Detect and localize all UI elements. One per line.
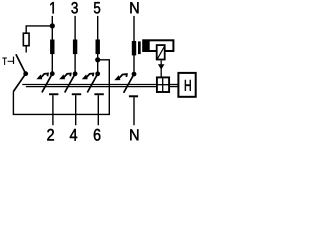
node pivot pole N xyxy=(132,72,137,77)
relay box interior xyxy=(150,41,173,50)
wire output N xyxy=(133,97,135,125)
node pivot pole 1 xyxy=(50,71,55,76)
wire line N input xyxy=(133,16,135,74)
trip action arrow xyxy=(160,60,162,76)
mechanical linkage double line xyxy=(22,84,156,86)
wire output 6 xyxy=(97,95,99,125)
CT primary bar L5 xyxy=(96,40,100,55)
trip arrow pole 1 xyxy=(36,74,48,80)
wire line 1 input xyxy=(51,16,53,74)
resistor R test xyxy=(23,33,29,46)
label T xyxy=(2,58,6,65)
CT primary bar N xyxy=(132,41,136,55)
node pivot pole 5 xyxy=(95,71,100,76)
release element xyxy=(157,45,165,59)
node junction on line 5 xyxy=(95,57,100,62)
trip arrow pole N xyxy=(114,74,127,80)
label 5 xyxy=(94,2,100,13)
node pivot pole 3 xyxy=(73,71,78,76)
label 3 xyxy=(71,2,77,13)
wire line 5 input xyxy=(97,16,99,74)
wire output 4 xyxy=(75,95,77,125)
wire test pivot to left riser xyxy=(13,74,25,92)
contact blade pole 1 xyxy=(42,74,52,93)
CT primary bar L3 xyxy=(73,40,77,55)
contact blade pole N xyxy=(124,74,134,93)
relay box xyxy=(142,39,174,52)
wire resistor lower lead xyxy=(25,46,27,53)
wire line 3 input xyxy=(74,16,76,74)
label 2 xyxy=(47,129,54,141)
contact blade pole 3 xyxy=(65,74,75,93)
label N top xyxy=(130,2,138,13)
label H xyxy=(185,80,191,91)
H box xyxy=(178,73,195,97)
mechanism box xyxy=(157,77,169,92)
test contact blade xyxy=(16,54,26,73)
node test pivot xyxy=(23,71,28,76)
label 1 xyxy=(50,2,53,13)
linkage to H box xyxy=(170,84,178,86)
label N bottom xyxy=(130,129,138,140)
wire left riser xyxy=(13,60,109,115)
node junction on line 1 xyxy=(50,23,55,28)
test button plunger xyxy=(13,57,15,64)
wire test branch top xyxy=(26,26,52,33)
fixed contact pole N xyxy=(129,95,138,97)
CT secondary bar xyxy=(138,41,141,54)
trip arrow pole 5 xyxy=(82,74,94,80)
fixed contact pole 5 xyxy=(94,93,103,95)
fixed contact pole 1 xyxy=(49,93,58,95)
trip arrow pole 3 xyxy=(59,74,71,80)
label 6 xyxy=(94,129,101,141)
contact blade pole 5 xyxy=(87,74,97,93)
wire output 2 xyxy=(52,95,54,125)
CT primary bar L1 xyxy=(50,40,54,55)
fixed contact pole 3 xyxy=(72,93,81,95)
label 4 xyxy=(70,129,77,141)
